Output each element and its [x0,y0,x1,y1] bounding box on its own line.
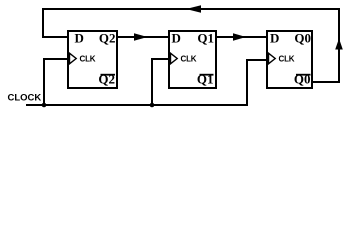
svg-text:CLOCK: CLOCK [8,93,42,104]
arrow left on top feedback line [186,5,201,13]
wire clk riser FF3 vertical [246,59,248,106]
overline Q2bar U1 [101,74,116,76]
flip-flop U1 box [68,31,117,88]
overline Q1bar U2 [200,74,214,76]
svg-text:Q1: Q1 [197,31,214,46]
arrow up on right feedback vertical [335,39,343,50]
wire feedback top line [42,8,340,10]
wire clk riser FF1 vertical [43,58,45,106]
flip-flop U3 box [267,31,312,88]
svg-text:CLK: CLK [279,55,295,64]
svg-text:Q0: Q0 [294,72,311,87]
svg-text:CLK: CLK [181,55,197,64]
wire clk riser FF1 horizontal [43,58,69,60]
svg-text:D: D [172,31,181,46]
arrow right Q1 to FF3 [233,33,246,41]
wire clk riser FF3 horizontal [246,59,268,61]
svg-text:CLK: CLK [80,55,96,64]
flip-flop U2 clk triangle [171,53,178,64]
svg-text:Q2: Q2 [99,31,116,46]
overline Q0bar U3 [296,74,311,76]
wire Q0bar output FF3 [311,81,340,83]
flip-flop U3 clk triangle [269,53,276,64]
wire clk riser FF2 vertical [151,58,153,106]
wire clock bus [26,104,248,106]
svg-text:D: D [75,31,84,46]
junction dot clock FF2 [150,103,155,108]
wire Q1 to D of FF3 [215,36,268,38]
svg-text:D: D [270,31,279,46]
arrow right Q2 to FF2 [134,33,148,41]
svg-text:Q1: Q1 [197,72,214,87]
wire D input FF1 [42,36,69,38]
flip-flop U1 clk triangle [70,53,77,64]
wire Q2 to D of FF2 [117,36,170,38]
wire feedback right vertical [338,8,340,83]
svg-text:Q2: Q2 [98,72,115,87]
flip-flop U2 box [169,31,216,88]
wire feedback left vertical [42,8,44,38]
wire clk riser FF2 horizontal [151,58,170,60]
svg-text:Q0: Q0 [294,31,311,46]
junction dot clock FF1 [42,103,47,108]
